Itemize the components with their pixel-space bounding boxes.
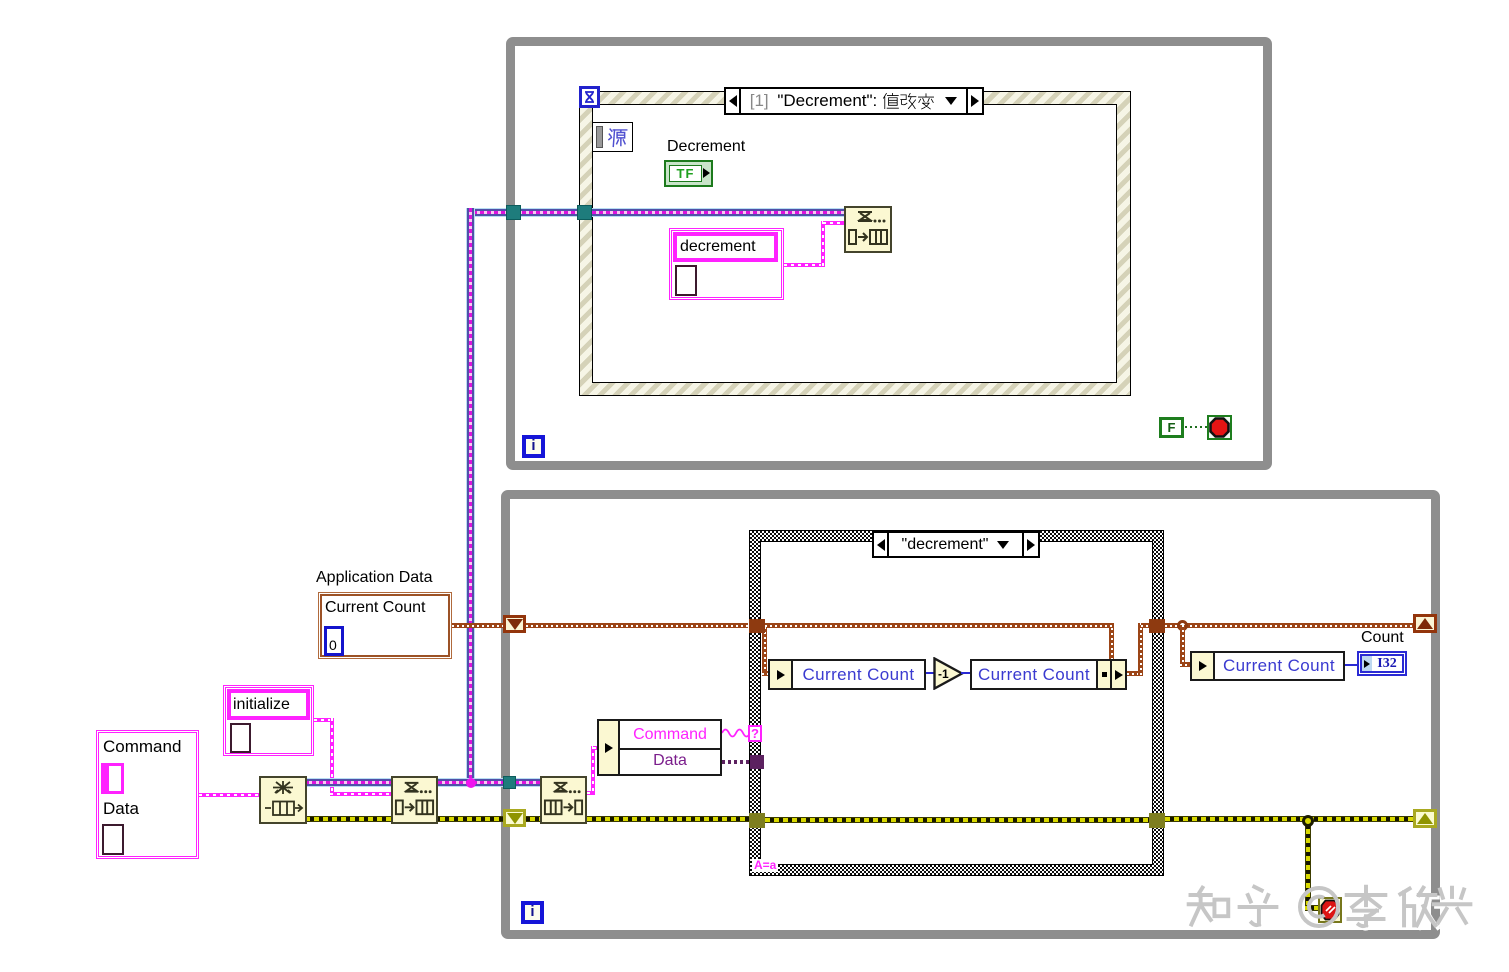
Unbundle By Name: Current Count (indicator side): [1190, 651, 1345, 681]
wire: green boolean dotted: [1185, 426, 1208, 428]
wire: Command/Data cluster to Obtain Queue (magenta): [199, 793, 259, 797]
shift register right (olive, up arrow): [1413, 809, 1437, 828]
error wire junction: [1302, 815, 1314, 827]
tunnel brown left: [749, 619, 765, 633]
wire: brown from case to right shift register: [1165, 623, 1413, 628]
Application Data label: [316, 569, 433, 587]
wire: error cluster (olive) main run: [305, 816, 540, 822]
Obtain Queue node: [259, 776, 307, 824]
shift register left (brown, down arrow): [503, 615, 526, 633]
enqueue element node (top): [844, 206, 892, 253]
Unbundle By Name node (Command/Data): [597, 719, 722, 776]
Decrement label: [667, 138, 745, 156]
cluster constant "decrement": [669, 228, 784, 300]
event structure inner area: [592, 104, 1117, 383]
wire: initialize to Enqueue (magenta): [314, 718, 334, 722]
event structure border: [579, 91, 1131, 396]
watermark 知乎 @李欣兴: [1183, 878, 1483, 936]
wire: queue refnum horizontal (top): [466, 208, 844, 217]
wire: queue refnum vertical trunk: [466, 208, 475, 787]
I32 indicator terminal: [1357, 651, 1407, 676]
loop condition stop terminal (bottom loop, error wired): [1318, 897, 1342, 923]
shift register right (brown, up arrow): [1413, 614, 1437, 633]
tunnel olive left: [749, 813, 765, 828]
F boolean constant: [1159, 417, 1184, 438]
wire: error cluster (olive) inside case: [765, 817, 1149, 823]
svg-text:-1: -1: [938, 667, 949, 681]
brown drop into bundle input: [1109, 628, 1114, 659]
Unbundle By Name: Current Count: [768, 659, 926, 690]
tunnel variant (purple): [750, 755, 764, 769]
case insensitive match marker A=a: [752, 859, 778, 872]
wire: brown from SR to case: [526, 623, 748, 628]
iteration terminal i (bottom loop): [521, 901, 544, 924]
shift register left (olive, down arrow): [503, 809, 526, 827]
brown junction dot: [1177, 620, 1188, 631]
case selector terminal ?: [748, 725, 762, 742]
tunnel brown right: [1149, 619, 1165, 633]
tunnel on event structure border: [577, 205, 592, 220]
decrement (-1) primitive: [933, 657, 964, 690]
iteration terminal i (top loop): [522, 435, 545, 458]
wire: brown cluster Current Count to left shift register: [452, 623, 503, 628]
refnum junction dot: [466, 778, 476, 788]
event case label bar: [724, 87, 984, 115]
loop condition stop terminal (top loop): [1207, 415, 1232, 440]
event data node (source 源): [592, 122, 633, 152]
brown drop to unbundle: [762, 627, 767, 674]
wire: variant dotted Data to tunnel: [722, 760, 752, 764]
Bundle By Name: Current Count: [970, 659, 1127, 690]
boolean terminal TF (Decrement): [664, 160, 713, 187]
tunnel olive right: [1149, 813, 1165, 828]
brown from bundle out up and to right tunnel: [1127, 671, 1143, 676]
wire: string squiggle Command to case selector: [722, 728, 750, 738]
wire: error branch down to stop: [1305, 820, 1311, 909]
wire: blue i32 decrement to bundle: [961, 672, 972, 674]
wire: blue i32 unbundle to decrement: [926, 672, 934, 674]
wire: dequeue element out up to unbundle (magenta): [587, 791, 595, 795]
Enqueue Element node (bottom): [391, 776, 438, 824]
cluster constant Current Count (Application Data): [318, 592, 452, 659]
Dequeue Element node: [540, 776, 587, 824]
while loop (bottom): [501, 490, 1440, 939]
brown branch down to unbundle: [1180, 625, 1185, 666]
while loop (top): [506, 37, 1272, 470]
cluster constant Command / Data: [96, 730, 199, 859]
event structure timeout terminal: [579, 86, 600, 108]
case structure inner area: [760, 541, 1153, 865]
wire: queue refnum horizontal (bottom): [305, 778, 540, 787]
wire: blue to I32 indicator: [1345, 664, 1358, 666]
wire: cluster to enqueue (magenta): [784, 263, 825, 267]
Count label: [1361, 629, 1404, 647]
tunnel on while loop border (top): [506, 205, 521, 220]
cluster constant initialize: [223, 685, 314, 756]
case label "decrement": [872, 531, 1040, 558]
case structure border: [749, 530, 1164, 876]
wires inside case: brown top run: [765, 623, 1114, 628]
tunnel teal on loop border (refnum): [503, 776, 516, 789]
